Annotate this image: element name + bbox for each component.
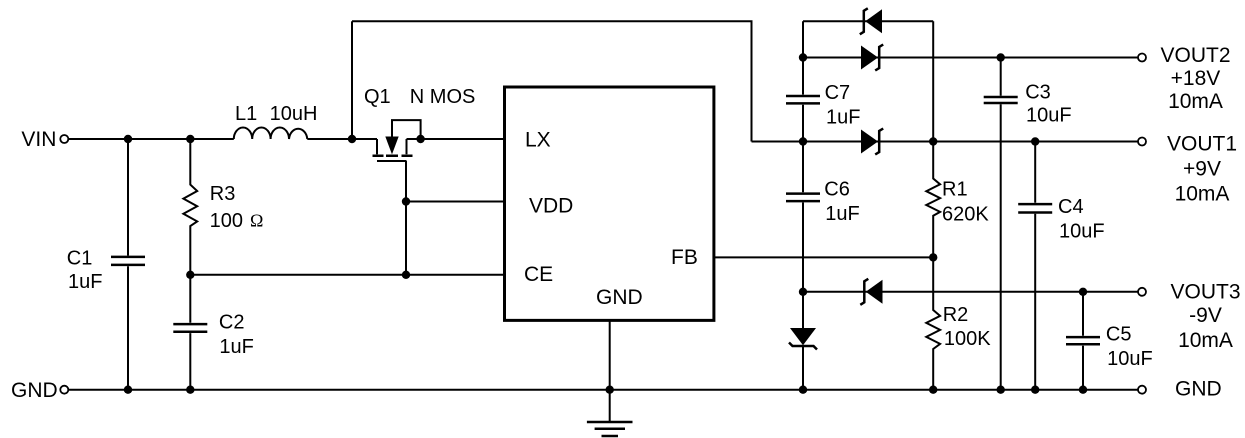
wire VIN terminal to L1: [68, 138, 234, 140]
wire top diode row: [803, 20, 933, 22]
wire FB pin to R1/R2 node: [714, 256, 933, 258]
svg-text:GND: GND: [596, 286, 643, 309]
capacitor C5: [1082, 292, 1084, 390]
svg-text:Q1: Q1: [364, 86, 391, 108]
capacitor C1: [127, 139, 129, 390]
svg-text:C2: C2: [219, 312, 245, 334]
wire top rail to VOUT1 row: [352, 21, 752, 141]
junction C2/GND rail: [186, 386, 194, 394]
svg-text:1uF: 1uF: [219, 336, 253, 358]
svg-text:FB: FB: [671, 246, 698, 269]
junction Q1 body / LX: [416, 135, 424, 143]
svg-text:GND: GND: [1175, 378, 1222, 401]
junction R2 / GND rail: [929, 386, 937, 394]
Schottky diode VOUT1 row (pointing right): [861, 130, 878, 154]
node VOUT2 terminal: [1138, 54, 1146, 62]
inductor L1: [234, 127, 307, 139]
svg-text:R2: R2: [943, 304, 969, 326]
svg-text:VOUT1: VOUT1: [1167, 133, 1237, 156]
svg-text:LX: LX: [525, 129, 551, 152]
junction col A / VOUT3 row: [799, 288, 807, 296]
node VOUT1 terminal: [1138, 138, 1146, 146]
junction Q1 drain / top rail: [348, 135, 356, 143]
svg-text:620K: 620K: [942, 204, 989, 226]
svg-text:-9V: -9V: [1189, 304, 1222, 327]
svg-text:C3: C3: [1025, 82, 1051, 104]
junction gate / VDD: [402, 197, 410, 205]
svg-text:1uF: 1uF: [826, 107, 860, 129]
svg-text:100K: 100K: [944, 328, 991, 350]
svg-text:10mA: 10mA: [1178, 329, 1233, 352]
junction FB / R1 / R2: [929, 253, 937, 261]
junction gate / CE: [402, 271, 410, 279]
junction C1/GND rail: [124, 386, 132, 394]
junction R1 / VOUT1 row: [929, 137, 937, 145]
capacitor C6: [786, 194, 820, 202]
junction C4 / GND rail: [1031, 386, 1039, 394]
node VIN terminal: [60, 135, 68, 143]
junction col A / GND rail: [799, 386, 807, 394]
junction R3/C2/CE: [186, 271, 194, 279]
svg-text:CE: CE: [524, 263, 553, 286]
ground (earth) symbol: [609, 390, 611, 421]
wire Q1 gate lead down to CE: [405, 161, 407, 275]
node VOUT3 terminal: [1138, 288, 1146, 296]
svg-text:10mA: 10mA: [1168, 90, 1223, 113]
svg-text:VOUT3: VOUT3: [1170, 281, 1240, 304]
svg-text:VDD: VDD: [529, 195, 573, 218]
wire column B top (to R1): [932, 21, 934, 141]
svg-text:VOUT2: VOUT2: [1160, 44, 1230, 67]
svg-text:C1: C1: [67, 248, 93, 270]
Zener diode column A bottom (pointing down): [790, 328, 816, 345]
node GND right terminal: [1138, 386, 1146, 394]
wire VOUT2 row: [803, 57, 1138, 59]
Schottky diode top (VOUT2 doubler, pointing left): [865, 9, 882, 33]
svg-text:10uF: 10uF: [1107, 348, 1153, 370]
Schottky diode VOUT2 row (pointing right): [861, 46, 878, 70]
junction C5 / VOUT3 row: [1079, 288, 1087, 296]
svg-text:10uF: 10uF: [1026, 104, 1072, 126]
wire Q1 body dot to LX pin: [421, 138, 505, 140]
wire GND rail: [68, 389, 1138, 391]
resistor R2: [926, 257, 940, 389]
junction col A / VOUT2 row: [799, 53, 807, 61]
wire column A (C7/C6/zener branch): [802, 21, 804, 389]
svg-text:100: 100: [210, 210, 243, 232]
wire IC GND pin down to ground rail: [609, 320, 611, 389]
svg-text:VIN: VIN: [21, 128, 56, 151]
svg-text:R1: R1: [942, 179, 968, 201]
svg-text:+9V: +9V: [1183, 158, 1221, 181]
junction VIN/C1: [124, 135, 132, 143]
svg-text:L1: L1: [235, 103, 257, 125]
svg-text:10uH: 10uH: [270, 103, 318, 125]
svg-text:10mA: 10mA: [1175, 183, 1230, 206]
svg-text:+18V: +18V: [1171, 67, 1221, 90]
svg-text:C4: C4: [1058, 196, 1084, 218]
junction C4 / VOUT1 row: [1031, 137, 1039, 145]
svg-text:GND: GND: [11, 379, 58, 402]
svg-text:N MOS: N MOS: [410, 86, 476, 108]
svg-text:10uF: 10uF: [1059, 221, 1105, 243]
wire Q1 junction up to top rail: [351, 21, 353, 139]
resistor R1: [926, 142, 940, 258]
junction C3 / GND rail: [997, 386, 1005, 394]
junction IC GND/rail: [606, 386, 614, 394]
svg-text:1uF: 1uF: [825, 203, 859, 225]
Schottky diode VOUT3 row (pointing left): [866, 280, 883, 304]
svg-text:Ω: Ω: [250, 211, 263, 231]
svg-text:1uF: 1uF: [68, 271, 102, 293]
svg-text:C5: C5: [1106, 324, 1132, 346]
svg-text:C7: C7: [825, 82, 851, 104]
wire VOUT3 row: [803, 291, 1138, 293]
svg-text:R3: R3: [210, 183, 236, 205]
capacitor C7: [786, 96, 820, 103]
svg-text:C6: C6: [824, 179, 850, 201]
wire CE pin from R3 node: [190, 274, 504, 276]
wire VOUT1 row: [752, 141, 1139, 143]
transistor Q1 (N MOS): [376, 139, 378, 154]
node GND left terminal: [60, 386, 68, 394]
wire VDD pin: [406, 201, 505, 203]
capacitor C2: [189, 275, 191, 390]
resistor R3: [183, 139, 197, 275]
capacitor C4: [1034, 142, 1036, 390]
wire L1 to Q1 left contact: [307, 138, 377, 140]
junction VIN/R3: [186, 135, 194, 143]
op-amp IC U1 box: [505, 87, 714, 320]
junction C5 / GND rail: [1079, 386, 1087, 394]
capacitor C3: [1000, 58, 1002, 390]
junction col A / VOUT1 row: [799, 137, 807, 145]
junction C3 / VOUT2 row: [997, 53, 1005, 61]
